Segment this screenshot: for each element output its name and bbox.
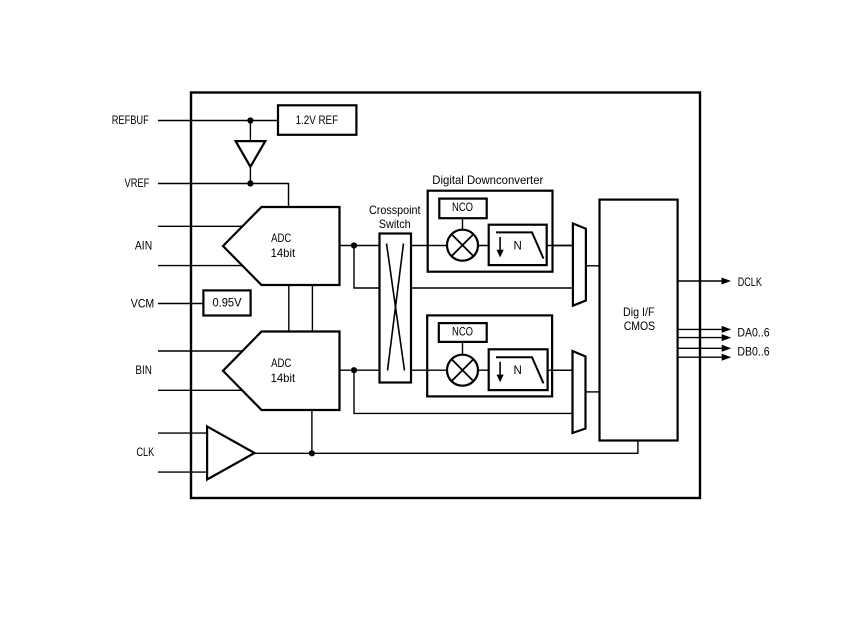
wire NCO2 to mixer: [462, 342, 464, 356]
mixer 2: [447, 355, 478, 386]
wire crosspoint to DDC1 to mux A: [411, 245, 573, 247]
wire DCLK output: [678, 280, 723, 282]
svg-text:CLK: CLK: [136, 445, 154, 459]
DDC1 block: [428, 191, 553, 272]
svg-text:ADC: ADC: [271, 356, 291, 370]
wire B bypass to mux B: [354, 370, 573, 413]
node ADC A output junction: [351, 242, 357, 248]
wire DDC2 input to mixer: [427, 369, 572, 371]
wire AIN plus input: [158, 225, 243, 227]
node VREF junction: [247, 180, 253, 186]
CLK buffer: [207, 426, 254, 479]
mux A: [573, 224, 586, 306]
NCO 2: [439, 323, 487, 342]
wire DA output 1: [678, 328, 723, 330]
svg-text:Dig I/F: Dig I/F: [623, 305, 655, 319]
svg-text:AIN: AIN: [135, 238, 152, 252]
wire reference buffer to VREF: [249, 167, 251, 184]
wire DA output 2: [678, 337, 723, 339]
svg-text:DCLK: DCLK: [738, 275, 762, 289]
svg-text:NCO: NCO: [452, 200, 473, 214]
wire BIN plus input: [158, 350, 243, 352]
DDC2 block: [427, 315, 552, 396]
svg-text:CMOS: CMOS: [624, 319, 656, 333]
mixer 1: [447, 230, 478, 261]
wire crosspoint to DDC2 to mux B: [411, 369, 573, 371]
wire CLK plus input: [158, 432, 207, 434]
buffer amplifier REFBUF: [236, 141, 266, 167]
wire BIN minus input: [158, 389, 242, 391]
svg-text:0.95V: 0.95V: [213, 296, 242, 310]
wire VCM input: [158, 303, 203, 305]
svg-text:REFBUF: REFBUF: [112, 113, 149, 127]
wire ADC A to ADC B reference right: [311, 285, 313, 332]
svg-text:Digital Downconverter: Digital Downconverter: [432, 173, 543, 187]
wire NCO1 to mixer: [462, 218, 464, 231]
NCO 1: [439, 199, 486, 219]
svg-text:N: N: [514, 240, 522, 252]
wire ADC A output to crosspoint: [340, 245, 380, 247]
wire REFBUF input: [158, 120, 278, 122]
wire CLK to ADC B: [311, 410, 313, 453]
mux B: [573, 351, 586, 433]
svg-text:Switch: Switch: [379, 217, 411, 231]
svg-text:N: N: [514, 365, 522, 377]
wire A bypass to mux A: [354, 246, 573, 289]
svg-text:DA0..6: DA0..6: [737, 325, 769, 339]
wire AIN minus input: [158, 265, 243, 267]
wire CLK minus input: [158, 471, 207, 473]
wire DB output 1: [678, 347, 723, 349]
Dig I/F CMOS block: [600, 200, 678, 441]
chip boundary: [191, 93, 700, 499]
svg-text:14bit: 14bit: [271, 371, 296, 385]
svg-text:VREF: VREF: [125, 176, 150, 190]
svg-text:NCO: NCO: [452, 325, 473, 339]
block 0.95V: [203, 290, 250, 315]
wire junction to reference buffer: [249, 121, 251, 142]
wire VREF input: [158, 184, 289, 208]
svg-text:1.2V REF: 1.2V REF: [296, 113, 339, 127]
node CLK junction: [309, 450, 315, 456]
wire DB output 2: [678, 356, 723, 358]
svg-text:ADC: ADC: [271, 231, 291, 245]
svg-text:Crosspoint: Crosspoint: [369, 203, 421, 217]
block 1.2V REF: [278, 105, 356, 135]
crosspoint switch: [380, 234, 412, 383]
svg-text:DB0..6: DB0..6: [737, 345, 769, 359]
wire mux A to Dig I/F: [586, 265, 600, 267]
node REFBUF junction: [247, 117, 253, 123]
wire ADC B output to crosspoint: [340, 369, 380, 371]
ADC A: [223, 207, 340, 285]
wire DDC1 input to mixer: [428, 245, 573, 247]
svg-text:14bit: 14bit: [271, 246, 296, 260]
svg-text:BIN: BIN: [135, 363, 152, 377]
wire CLK buffer output: [255, 441, 638, 454]
wire mux B to Dig I/F: [586, 391, 600, 393]
decimation filter 1: [489, 225, 547, 265]
ADC B: [223, 332, 340, 411]
svg-text:VCM: VCM: [131, 297, 154, 311]
wire ADC A to ADC B reference left: [288, 285, 290, 332]
node ADC B output junction: [351, 367, 357, 373]
decimation filter 2: [489, 349, 548, 390]
